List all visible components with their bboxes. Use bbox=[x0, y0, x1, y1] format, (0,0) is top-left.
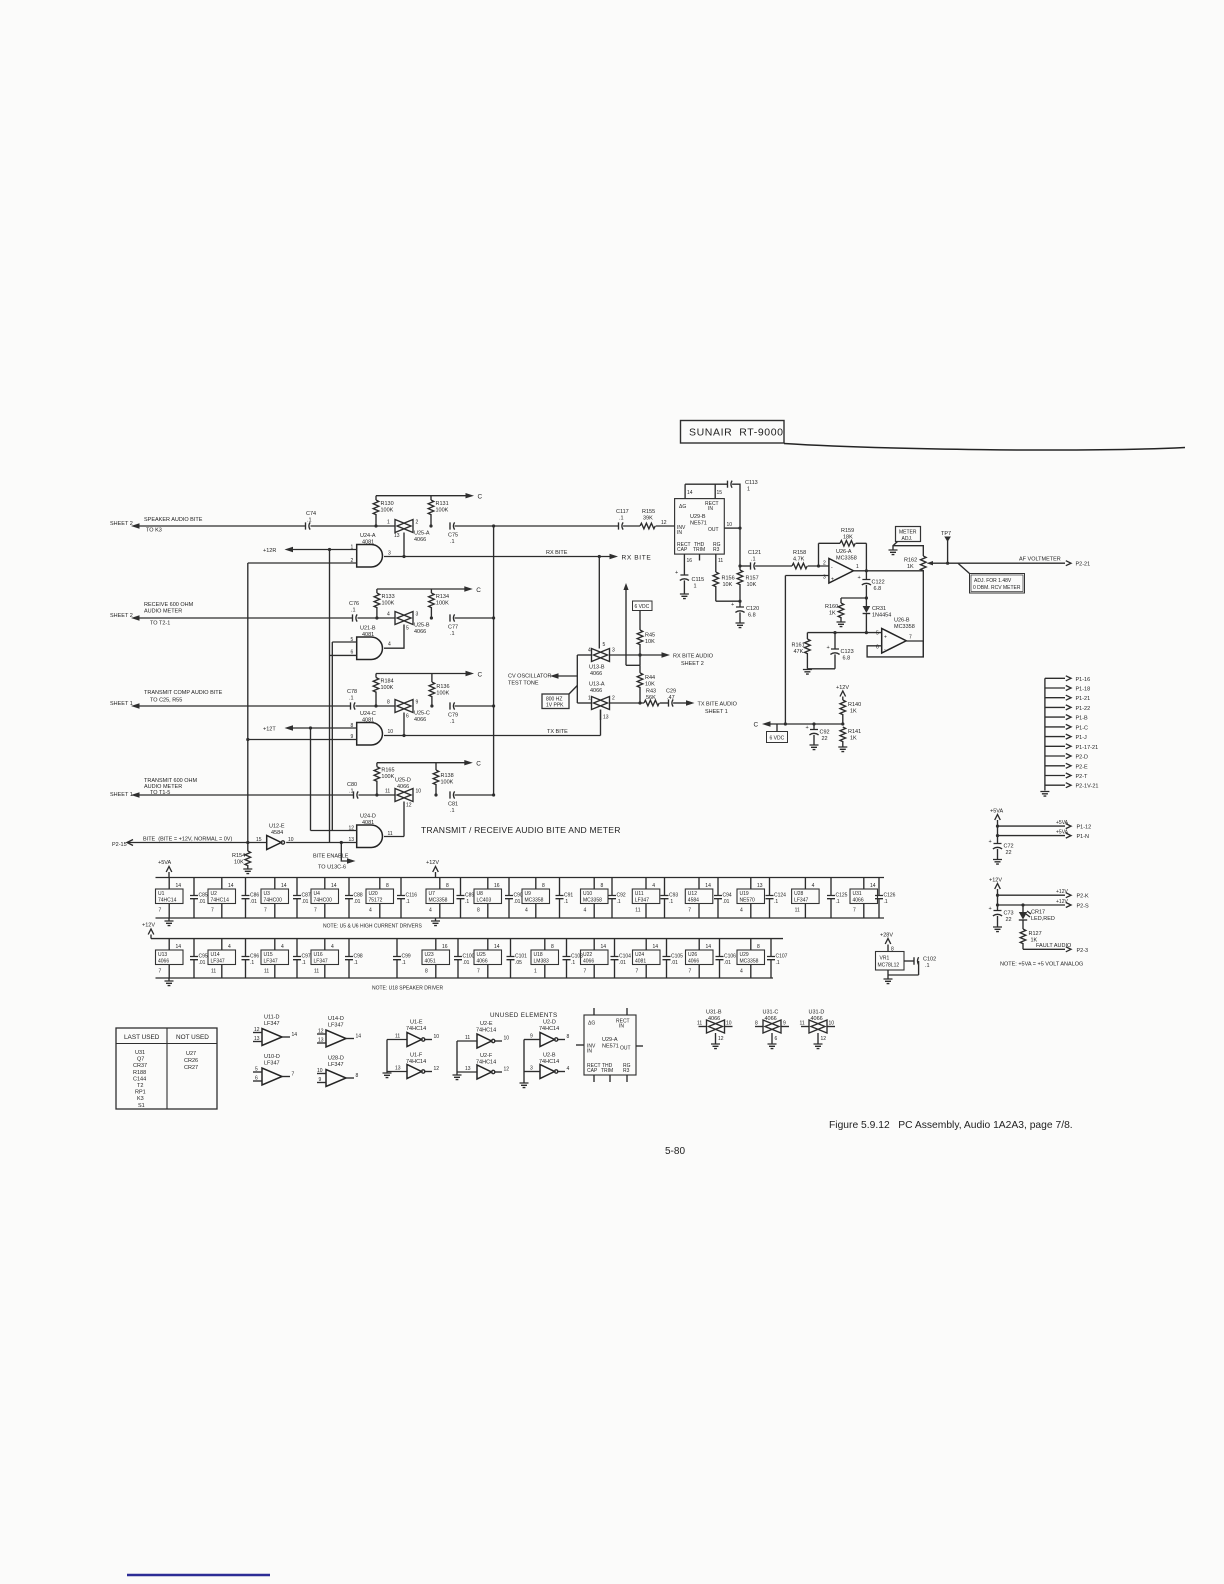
wire vertical output bus bbox=[493, 526, 495, 795]
IC U28 LF347 bbox=[792, 878, 820, 919]
capacitor C103 bbox=[563, 939, 584, 978]
potentiometer R162 1K bbox=[904, 556, 948, 657]
capacitor C29 .47 bbox=[666, 689, 686, 707]
capacitor C74 bbox=[306, 511, 317, 530]
node C (row4) bbox=[464, 760, 481, 768]
svg-text:4066: 4066 bbox=[708, 1016, 720, 1022]
svg-text:+: + bbox=[827, 645, 830, 651]
svg-text:C103: C103 bbox=[571, 954, 583, 960]
node SHEET 1 (row4) bbox=[110, 792, 140, 798]
svg-text:+12V: +12V bbox=[142, 923, 155, 929]
svg-text:C86: C86 bbox=[250, 893, 259, 899]
svg-text:NOTE: U5 & U6 HIGH CURRENT DRI: NOTE: U5 & U6 HIGH CURRENT DRIVERS bbox=[323, 924, 422, 930]
svg-text:+5VA: +5VA bbox=[990, 809, 1004, 815]
wire row2 bottom bus bbox=[156, 977, 774, 979]
svg-text:C88: C88 bbox=[354, 893, 363, 899]
svg-text:C78: C78 bbox=[347, 689, 357, 695]
svg-text:8: 8 bbox=[891, 947, 894, 953]
ground U2EF bbox=[453, 1075, 462, 1080]
svg-text:R131: R131 bbox=[436, 501, 449, 507]
svg-text:11: 11 bbox=[395, 1034, 400, 1040]
resistor R133 100K bbox=[374, 589, 395, 618]
svg-text:+: + bbox=[858, 575, 861, 581]
svg-text:2: 2 bbox=[823, 561, 826, 567]
svg-text:VR1: VR1 bbox=[880, 956, 890, 962]
resistor R141 1K bbox=[840, 727, 861, 747]
svg-text:C126: C126 bbox=[884, 893, 896, 899]
svg-text:C79: C79 bbox=[448, 713, 458, 719]
analog switch U31-C 4066 bbox=[755, 1010, 789, 1049]
svg-text:U14-D: U14-D bbox=[328, 1016, 344, 1022]
svg-text:.47: .47 bbox=[667, 695, 675, 701]
analog switch U25-B 4066 bbox=[387, 612, 430, 636]
svg-text:.1: .1 bbox=[751, 557, 756, 563]
svg-text:AF VOLTMETER: AF VOLTMETER bbox=[1019, 557, 1061, 563]
wire RX BITE down to U13-B bbox=[598, 557, 600, 649]
ground below C115 bbox=[680, 594, 689, 599]
svg-text:5: 5 bbox=[603, 642, 606, 648]
svg-text:74HC00: 74HC00 bbox=[314, 898, 333, 904]
svg-text:74HC14: 74HC14 bbox=[158, 898, 177, 904]
svg-text:4066: 4066 bbox=[158, 959, 169, 965]
svg-text:+: + bbox=[675, 570, 678, 576]
svg-text:+: + bbox=[731, 602, 734, 608]
capacitor C87 bbox=[293, 878, 311, 919]
svg-text:74HC14: 74HC14 bbox=[406, 1059, 426, 1065]
inverter U12-E 4584 bbox=[256, 824, 294, 850]
wire U25-C control bbox=[403, 713, 405, 736]
svg-text:R156: R156 bbox=[722, 576, 735, 582]
svg-text:9: 9 bbox=[783, 1021, 786, 1027]
svg-text:C98: C98 bbox=[354, 954, 363, 960]
svg-text:SHEET 1: SHEET 1 bbox=[705, 709, 728, 715]
svg-text:12: 12 bbox=[718, 1036, 724, 1042]
svg-text:4066: 4066 bbox=[477, 959, 488, 965]
IC U11 LF347 bbox=[632, 878, 660, 919]
svg-text:1: 1 bbox=[534, 969, 537, 975]
svg-text:16: 16 bbox=[442, 944, 448, 950]
capacitor C120 6.8 bbox=[731, 601, 759, 623]
capacitor C121 .1 bbox=[748, 550, 761, 570]
svg-text:7: 7 bbox=[584, 969, 587, 975]
wire U13 input vertical bbox=[576, 655, 578, 703]
svg-text:U10-D: U10-D bbox=[264, 1054, 280, 1060]
svg-text:R130: R130 bbox=[381, 501, 394, 507]
svg-text:U26-A: U26-A bbox=[836, 549, 852, 555]
capacitor C115 1 bbox=[675, 570, 704, 594]
capacitor C91 bbox=[556, 878, 574, 919]
svg-text:.1: .1 bbox=[884, 899, 888, 905]
svg-text:8: 8 bbox=[551, 944, 554, 950]
svg-text:3: 3 bbox=[416, 612, 419, 618]
svg-text:C116: C116 bbox=[406, 893, 418, 899]
svg-text:11: 11 bbox=[795, 908, 800, 914]
svg-text:U29: U29 bbox=[740, 952, 749, 958]
svg-text:OUT: OUT bbox=[620, 1046, 631, 1052]
svg-text:10K: 10K bbox=[747, 582, 757, 588]
svg-text:100K: 100K bbox=[441, 780, 454, 786]
svg-text:S1: S1 bbox=[138, 1103, 145, 1109]
svg-text:ADJ. FOR 1.48V: ADJ. FOR 1.48V bbox=[974, 578, 1012, 584]
IC U26 4066 bbox=[686, 939, 714, 978]
svg-text:10K: 10K bbox=[645, 639, 655, 645]
svg-text:CAP: CAP bbox=[677, 547, 688, 553]
wire row3 top rail bbox=[376, 673, 466, 675]
svg-text:METER: METER bbox=[899, 530, 917, 536]
svg-text:12: 12 bbox=[254, 1027, 260, 1033]
ground below C72 bbox=[993, 860, 1002, 865]
svg-text:U11: U11 bbox=[635, 891, 644, 897]
power +12V to R140 bbox=[836, 685, 849, 700]
svg-text:4: 4 bbox=[740, 908, 743, 914]
svg-text:4: 4 bbox=[388, 642, 391, 648]
power +5VA bbox=[990, 809, 1004, 844]
svg-text:11: 11 bbox=[465, 1035, 470, 1041]
wire row1 to bus and C117 bbox=[455, 525, 618, 527]
resistor R165 100K bbox=[374, 763, 394, 795]
svg-text:C93: C93 bbox=[669, 893, 678, 899]
node junction V4 bbox=[309, 726, 312, 729]
wire TX BITE line bbox=[384, 735, 601, 737]
svg-text:6: 6 bbox=[775, 1036, 778, 1042]
svg-text:NOTE: U18 SPEAKER DRIVER: NOTE: U18 SPEAKER DRIVER bbox=[372, 986, 444, 992]
svg-text:+: + bbox=[831, 577, 834, 583]
svg-text:.1: .1 bbox=[406, 899, 410, 905]
svg-text:13: 13 bbox=[394, 533, 400, 539]
svg-text:4066: 4066 bbox=[590, 671, 602, 677]
ground below C120 bbox=[736, 623, 745, 628]
capacitor C117 bbox=[616, 509, 629, 530]
svg-text:11: 11 bbox=[635, 908, 640, 914]
svg-text:U24: U24 bbox=[635, 952, 644, 958]
box 800 HZ 1V PPK bbox=[542, 686, 577, 709]
svg-text:MC3358: MC3358 bbox=[525, 898, 544, 904]
svg-text:LF347: LF347 bbox=[211, 959, 225, 965]
svg-text:U31: U31 bbox=[853, 891, 862, 897]
svg-text:TRIM: TRIM bbox=[693, 547, 705, 553]
svg-text:TEST TONE: TEST TONE bbox=[508, 681, 539, 687]
svg-text:P1-C: P1-C bbox=[1076, 725, 1089, 731]
svg-text:13: 13 bbox=[395, 1066, 401, 1072]
op-amp U14-D LF347 bbox=[317, 1016, 361, 1047]
IC U14 LF347 bbox=[208, 939, 236, 978]
wire vertical bus V2 bbox=[329, 550, 331, 843]
svg-text:RX BITE AUDIO: RX BITE AUDIO bbox=[673, 654, 714, 660]
wire feedback top rail bbox=[819, 542, 841, 544]
svg-text:U25-B: U25-B bbox=[414, 623, 430, 629]
svg-text:MC3358: MC3358 bbox=[894, 624, 915, 630]
svg-text:4: 4 bbox=[429, 908, 432, 914]
svg-text:R158: R158 bbox=[793, 550, 806, 556]
AND gate U24-D 4081 bbox=[349, 814, 393, 848]
svg-text:ADJ.: ADJ. bbox=[902, 536, 913, 542]
svg-text:C85: C85 bbox=[199, 893, 208, 899]
svg-text:C99: C99 bbox=[402, 954, 411, 960]
svg-text:.1: .1 bbox=[619, 516, 624, 522]
wire row2 left bbox=[140, 617, 353, 619]
wire pin3 down leg bbox=[784, 576, 786, 725]
svg-text:U3: U3 bbox=[264, 891, 271, 897]
ground U1 bbox=[383, 1073, 392, 1078]
svg-text:CR26: CR26 bbox=[184, 1058, 198, 1064]
svg-text:T2: T2 bbox=[137, 1083, 143, 1089]
svg-text:4: 4 bbox=[652, 883, 655, 889]
svg-text:4: 4 bbox=[281, 944, 284, 950]
svg-text:R162: R162 bbox=[904, 558, 917, 564]
node P2-T bbox=[1045, 773, 1088, 780]
wire row1 top rail bbox=[376, 495, 466, 497]
svg-text:14: 14 bbox=[705, 883, 711, 889]
svg-text:13: 13 bbox=[254, 1036, 260, 1042]
svg-text:R184: R184 bbox=[381, 679, 394, 685]
svg-text:+: + bbox=[989, 906, 992, 912]
svg-text:U31-B: U31-B bbox=[706, 1010, 722, 1016]
svg-text:SHEET 2: SHEET 2 bbox=[681, 661, 704, 667]
svg-text:P2-21: P2-21 bbox=[1076, 562, 1091, 568]
wire U13-B left bbox=[577, 654, 591, 656]
svg-text:C80: C80 bbox=[347, 782, 357, 788]
ground below R161 bbox=[803, 670, 812, 675]
svg-text:8: 8 bbox=[356, 1073, 359, 1079]
svg-text:8: 8 bbox=[386, 883, 389, 889]
AND gate U21-B 4081 bbox=[351, 626, 392, 660]
svg-text:10: 10 bbox=[504, 1036, 510, 1042]
resistor R136 100K bbox=[429, 674, 449, 707]
capacitor C124 bbox=[766, 878, 787, 919]
svg-text:8: 8 bbox=[755, 1021, 758, 1027]
svg-text:R3: R3 bbox=[713, 547, 720, 553]
analog switch U13-B 4066 bbox=[588, 642, 615, 677]
power +12V row1 bbox=[426, 860, 439, 878]
svg-text:U29-B: U29-B bbox=[690, 514, 706, 520]
svg-text:R165: R165 bbox=[381, 768, 394, 774]
svg-text:C125: C125 bbox=[836, 893, 848, 899]
svg-text:.01: .01 bbox=[723, 899, 730, 905]
wire pin12 bbox=[311, 830, 357, 832]
svg-text:56K: 56K bbox=[646, 695, 656, 701]
wire U13-B out bbox=[610, 654, 663, 656]
svg-text:12: 12 bbox=[661, 520, 667, 526]
svg-text:22: 22 bbox=[1006, 850, 1012, 856]
svg-text:NOT USED: NOT USED bbox=[176, 1034, 209, 1041]
svg-text:+12V: +12V bbox=[1056, 899, 1068, 905]
svg-text:14: 14 bbox=[653, 944, 659, 950]
svg-text:6 VDC: 6 VDC bbox=[635, 604, 650, 610]
capacitor C102 bbox=[888, 957, 936, 976]
svg-text:7: 7 bbox=[159, 969, 162, 975]
svg-text:OUT: OUT bbox=[708, 527, 719, 533]
svg-text:8: 8 bbox=[542, 883, 545, 889]
svg-text:U11-D: U11-D bbox=[264, 1015, 280, 1021]
svg-text:.05: .05 bbox=[515, 960, 522, 966]
svg-text:LF347: LF347 bbox=[635, 898, 649, 904]
svg-text:74HC14: 74HC14 bbox=[476, 1060, 496, 1066]
capacitor C95 bbox=[190, 939, 208, 978]
svg-text:U31: U31 bbox=[135, 1050, 145, 1056]
svg-text:4: 4 bbox=[525, 908, 528, 914]
capacitor C123 6.8 bbox=[827, 633, 854, 669]
IC U19 NE570 bbox=[737, 878, 765, 919]
svg-text:C120: C120 bbox=[746, 606, 759, 612]
svg-text:MC3358: MC3358 bbox=[429, 898, 448, 904]
svg-text:C117: C117 bbox=[616, 509, 629, 515]
capacitor C79 bbox=[448, 702, 458, 725]
svg-text:TRANSMIT COMP AUDIO BITE: TRANSMIT COMP AUDIO BITE bbox=[144, 690, 223, 696]
svg-text:C94: C94 bbox=[723, 893, 732, 899]
svg-text:5: 5 bbox=[406, 626, 409, 632]
resistor R154 10K bbox=[232, 843, 251, 870]
resistor R158 4.7K bbox=[792, 550, 829, 569]
svg-text:TRANSMIT / RECEIVE AUDIO BITE: TRANSMIT / RECEIVE AUDIO BITE AND METER bbox=[421, 825, 621, 835]
svg-text:.1: .1 bbox=[617, 899, 621, 905]
IC U29-B NE571 bbox=[675, 499, 725, 554]
svg-text:1K: 1K bbox=[829, 611, 836, 617]
svg-text:U22: U22 bbox=[583, 952, 592, 958]
svg-text:.1: .1 bbox=[349, 789, 354, 795]
node junction V2 top bbox=[328, 548, 331, 551]
node P1-J bbox=[1045, 734, 1087, 741]
wire row4 left bbox=[140, 794, 354, 796]
svg-text:22: 22 bbox=[822, 736, 828, 742]
svg-text:U8: U8 bbox=[477, 891, 484, 897]
node +12R bbox=[263, 547, 293, 554]
svg-text:U1-F: U1-F bbox=[410, 1053, 423, 1059]
svg-text:RX BITE: RX BITE bbox=[622, 555, 652, 562]
svg-text:10K: 10K bbox=[234, 860, 244, 866]
svg-text:U2-E: U2-E bbox=[480, 1021, 493, 1027]
svg-text:.1: .1 bbox=[925, 963, 930, 969]
svg-text:U29-A: U29-A bbox=[602, 1037, 618, 1043]
wire U21-B out up to U25-B ctl bbox=[384, 645, 404, 649]
capacitor C107 bbox=[767, 939, 788, 978]
svg-text:8: 8 bbox=[387, 700, 390, 706]
callout METER ADJ ground mark bbox=[889, 542, 898, 555]
capacitor C98 bbox=[345, 939, 363, 978]
svg-text:.01: .01 bbox=[302, 899, 309, 905]
svg-text:U18: U18 bbox=[534, 952, 543, 958]
wire U24-D out up to U25-D ctl bbox=[384, 836, 404, 838]
svg-text:100K: 100K bbox=[381, 508, 394, 514]
capacitor C99 bbox=[393, 939, 411, 978]
svg-text:RECEIVE 600 OHM: RECEIVE 600 OHM bbox=[144, 602, 194, 608]
svg-text:0 DBM. RCV METER: 0 DBM. RCV METER bbox=[973, 585, 1021, 591]
resistor R44 10K bbox=[637, 665, 655, 703]
node CV OSCILLATOR TEST TONE bbox=[508, 673, 559, 686]
resistor R140 1K bbox=[840, 700, 861, 724]
svg-text:IN: IN bbox=[677, 530, 682, 536]
svg-text:8: 8 bbox=[567, 1034, 570, 1040]
svg-text:6.8: 6.8 bbox=[843, 656, 851, 662]
wire row2 top rail bbox=[377, 588, 465, 590]
svg-text:TO T2-1: TO T2-1 bbox=[150, 621, 170, 627]
svg-text:LF347: LF347 bbox=[794, 898, 808, 904]
ground below R154 bbox=[243, 869, 252, 874]
svg-text:10: 10 bbox=[829, 1021, 835, 1027]
wire row4 top rail bbox=[377, 762, 465, 764]
svg-text:7: 7 bbox=[292, 1072, 295, 1078]
svg-text:U31-D: U31-D bbox=[809, 1010, 825, 1016]
table LAST USED / NOT USED bbox=[116, 1028, 217, 1109]
IC U29-A NE571 bbox=[576, 1008, 643, 1082]
node junction R130 bbox=[374, 524, 377, 527]
svg-text:1: 1 bbox=[387, 520, 390, 526]
svg-text:C106: C106 bbox=[724, 954, 736, 960]
svg-text:C105: C105 bbox=[671, 954, 683, 960]
capacitor C90 bbox=[505, 878, 523, 919]
svg-text:TX BITE AUDIO: TX BITE AUDIO bbox=[698, 702, 738, 708]
svg-text:CAP: CAP bbox=[587, 1068, 598, 1074]
svg-text:.1: .1 bbox=[354, 960, 358, 966]
svg-text:+12V: +12V bbox=[989, 878, 1002, 884]
svg-text:.01: .01 bbox=[619, 960, 626, 966]
svg-text:12: 12 bbox=[504, 1067, 510, 1073]
svg-text:4: 4 bbox=[369, 908, 372, 914]
svg-text:P2-3: P2-3 bbox=[1077, 948, 1089, 954]
svg-text:9: 9 bbox=[319, 1077, 322, 1083]
svg-text:LAST USED: LAST USED bbox=[124, 1034, 160, 1041]
svg-text:P1-12: P1-12 bbox=[1077, 825, 1092, 831]
svg-text:12: 12 bbox=[406, 803, 412, 809]
svg-text:+: + bbox=[884, 635, 887, 641]
svg-text:4584: 4584 bbox=[271, 830, 283, 836]
svg-text:U14: U14 bbox=[211, 952, 220, 958]
svg-text:2: 2 bbox=[612, 696, 615, 702]
node OUT junction bbox=[738, 564, 741, 567]
inverter U1-E 74HC14 bbox=[387, 1020, 439, 1047]
svg-text:C72: C72 bbox=[1004, 844, 1014, 850]
svg-text:74HC14: 74HC14 bbox=[539, 1059, 559, 1065]
svg-text:4584: 4584 bbox=[688, 898, 699, 904]
op-amp U10-D LF347 bbox=[253, 1054, 295, 1085]
wire BITE ENABLE bbox=[341, 843, 347, 862]
svg-text:R161: R161 bbox=[792, 643, 805, 649]
svg-text:8: 8 bbox=[446, 883, 449, 889]
svg-text:U1: U1 bbox=[158, 891, 165, 897]
node C net arrow bbox=[754, 721, 771, 728]
wire U25-D control bbox=[403, 802, 405, 837]
svg-text:U25-D: U25-D bbox=[395, 778, 411, 784]
capacitor C76 bbox=[349, 601, 359, 622]
svg-text:4066: 4066 bbox=[590, 688, 602, 694]
svg-text:4.7K: 4.7K bbox=[793, 557, 805, 563]
svg-text:10K: 10K bbox=[645, 682, 655, 688]
svg-text:U26-B: U26-B bbox=[894, 618, 910, 624]
wire row1 bottom bus bbox=[156, 917, 885, 919]
svg-text:4066: 4066 bbox=[397, 784, 409, 790]
capacitor C93 bbox=[661, 878, 679, 919]
svg-text:IN: IN bbox=[708, 506, 713, 512]
svg-text:.1: .1 bbox=[307, 518, 312, 524]
svg-text:P1-16: P1-16 bbox=[1076, 677, 1091, 683]
node RX BITE arrow bbox=[610, 554, 652, 562]
svg-text:U31-C: U31-C bbox=[763, 1010, 779, 1016]
wire row3 to bus bbox=[455, 705, 494, 707]
svg-text:6.8: 6.8 bbox=[874, 586, 882, 592]
svg-text:100K: 100K bbox=[436, 601, 449, 607]
wire row2 top bus bbox=[151, 938, 783, 940]
svg-text:C87: C87 bbox=[302, 893, 311, 899]
svg-text:K3: K3 bbox=[137, 1096, 144, 1102]
IC U29 MC3358 bbox=[737, 939, 765, 978]
svg-text:.1: .1 bbox=[450, 631, 455, 637]
svg-text:.1: .1 bbox=[465, 899, 469, 905]
svg-text:.1: .1 bbox=[351, 608, 356, 614]
svg-text:C124: C124 bbox=[774, 893, 786, 899]
svg-text:10: 10 bbox=[317, 1068, 323, 1074]
svg-text:P2-S: P2-S bbox=[1077, 904, 1090, 910]
wire RX BITE line bbox=[384, 556, 610, 558]
node C (row3) bbox=[466, 671, 483, 679]
